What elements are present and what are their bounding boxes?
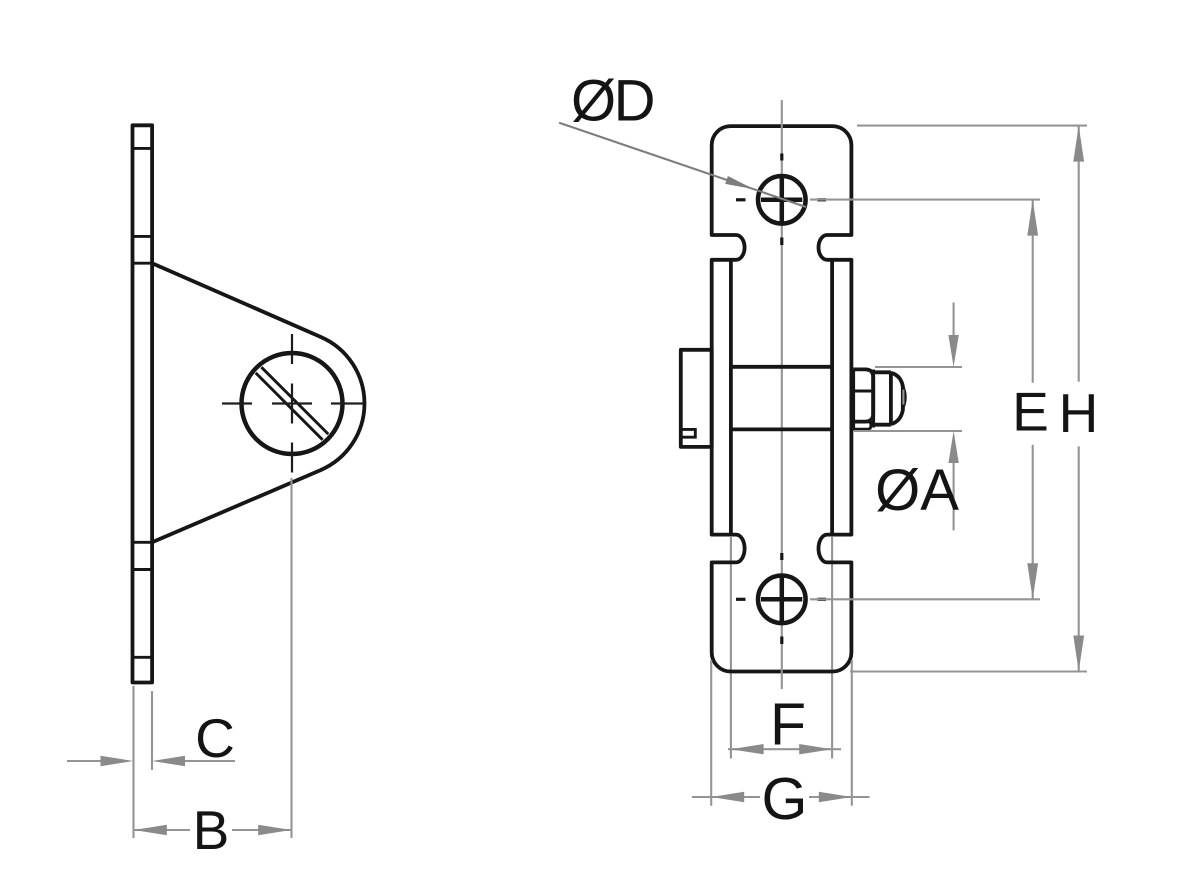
left flange plate xyxy=(681,350,712,447)
plate seam line 1 xyxy=(133,147,153,150)
bolt shank bottom edge xyxy=(731,427,832,431)
extension line bottom of plate xyxy=(850,670,1087,672)
body centerline vertical gray xyxy=(781,100,783,689)
leader line for ØD xyxy=(559,123,806,207)
nut washer strip xyxy=(853,422,871,430)
screw slot line 1 xyxy=(261,367,328,434)
plate seam line 5 xyxy=(133,568,153,571)
svg-text:G: G xyxy=(762,766,808,832)
top hole xyxy=(758,176,806,224)
hex nut left face xyxy=(851,369,855,429)
plate seam line 4 xyxy=(133,541,153,544)
extension line F right xyxy=(831,537,833,759)
svg-text:F: F xyxy=(770,692,806,758)
extension line top hole center xyxy=(810,199,1040,201)
centerline extension to B dimension xyxy=(290,478,292,838)
pin tip dark cone xyxy=(901,385,907,410)
svg-text:ØA: ØA xyxy=(875,458,959,523)
plate seam line 3 xyxy=(133,262,153,265)
right fold line xyxy=(830,260,834,535)
extension line G right xyxy=(851,660,853,806)
left fold line xyxy=(729,260,733,535)
extension line C right xyxy=(151,691,153,770)
bottom hole center cross xyxy=(761,597,802,602)
gusset profile with rounded tip xyxy=(152,263,364,542)
flange slot mark xyxy=(681,429,695,437)
bottom hole center dashes xyxy=(736,598,746,601)
dome tip outline xyxy=(891,373,903,424)
dimension F line xyxy=(728,748,841,750)
extension line G left xyxy=(710,660,712,806)
bottom hole xyxy=(758,576,806,624)
svg-text:C: C xyxy=(195,707,235,769)
extension line bottom hole center xyxy=(810,598,1040,600)
top hole center dashes xyxy=(736,198,746,201)
boss center mark horizontal xyxy=(222,402,252,404)
screw slot line 2 xyxy=(256,373,323,440)
dimension B line and arrows xyxy=(134,829,190,831)
dimension G line xyxy=(692,796,760,798)
dimension C line and arrows xyxy=(67,760,101,762)
hex nut facet line xyxy=(853,390,873,393)
dimension E line xyxy=(1032,200,1034,383)
top hole center cross xyxy=(761,198,802,203)
svg-text:ØD: ØD xyxy=(571,69,654,134)
extension line bolt top xyxy=(875,366,962,368)
pin tip highlight xyxy=(902,390,904,405)
svg-text:B: B xyxy=(193,799,230,861)
extension line bolt bottom xyxy=(854,430,962,432)
boss center mark vertical xyxy=(291,334,293,364)
svg-text:H: H xyxy=(1059,382,1099,444)
side-view mounting plate outline xyxy=(133,125,153,682)
dimension H line xyxy=(1078,126,1080,382)
svg-text:E: E xyxy=(1012,381,1049,443)
extension line C/B left xyxy=(132,686,134,838)
hex nut body xyxy=(853,369,873,421)
front-view body outline with notches xyxy=(712,126,852,671)
plate seam line 6 xyxy=(133,656,153,659)
dimension A line xyxy=(953,303,955,337)
cap sleeve xyxy=(873,370,891,428)
plate seam line 2 xyxy=(133,235,153,238)
extension line top of plate xyxy=(857,125,1087,127)
boss circle (screw head) xyxy=(242,353,343,454)
extension line F left xyxy=(730,537,732,759)
bolt shank top edge xyxy=(731,365,832,369)
